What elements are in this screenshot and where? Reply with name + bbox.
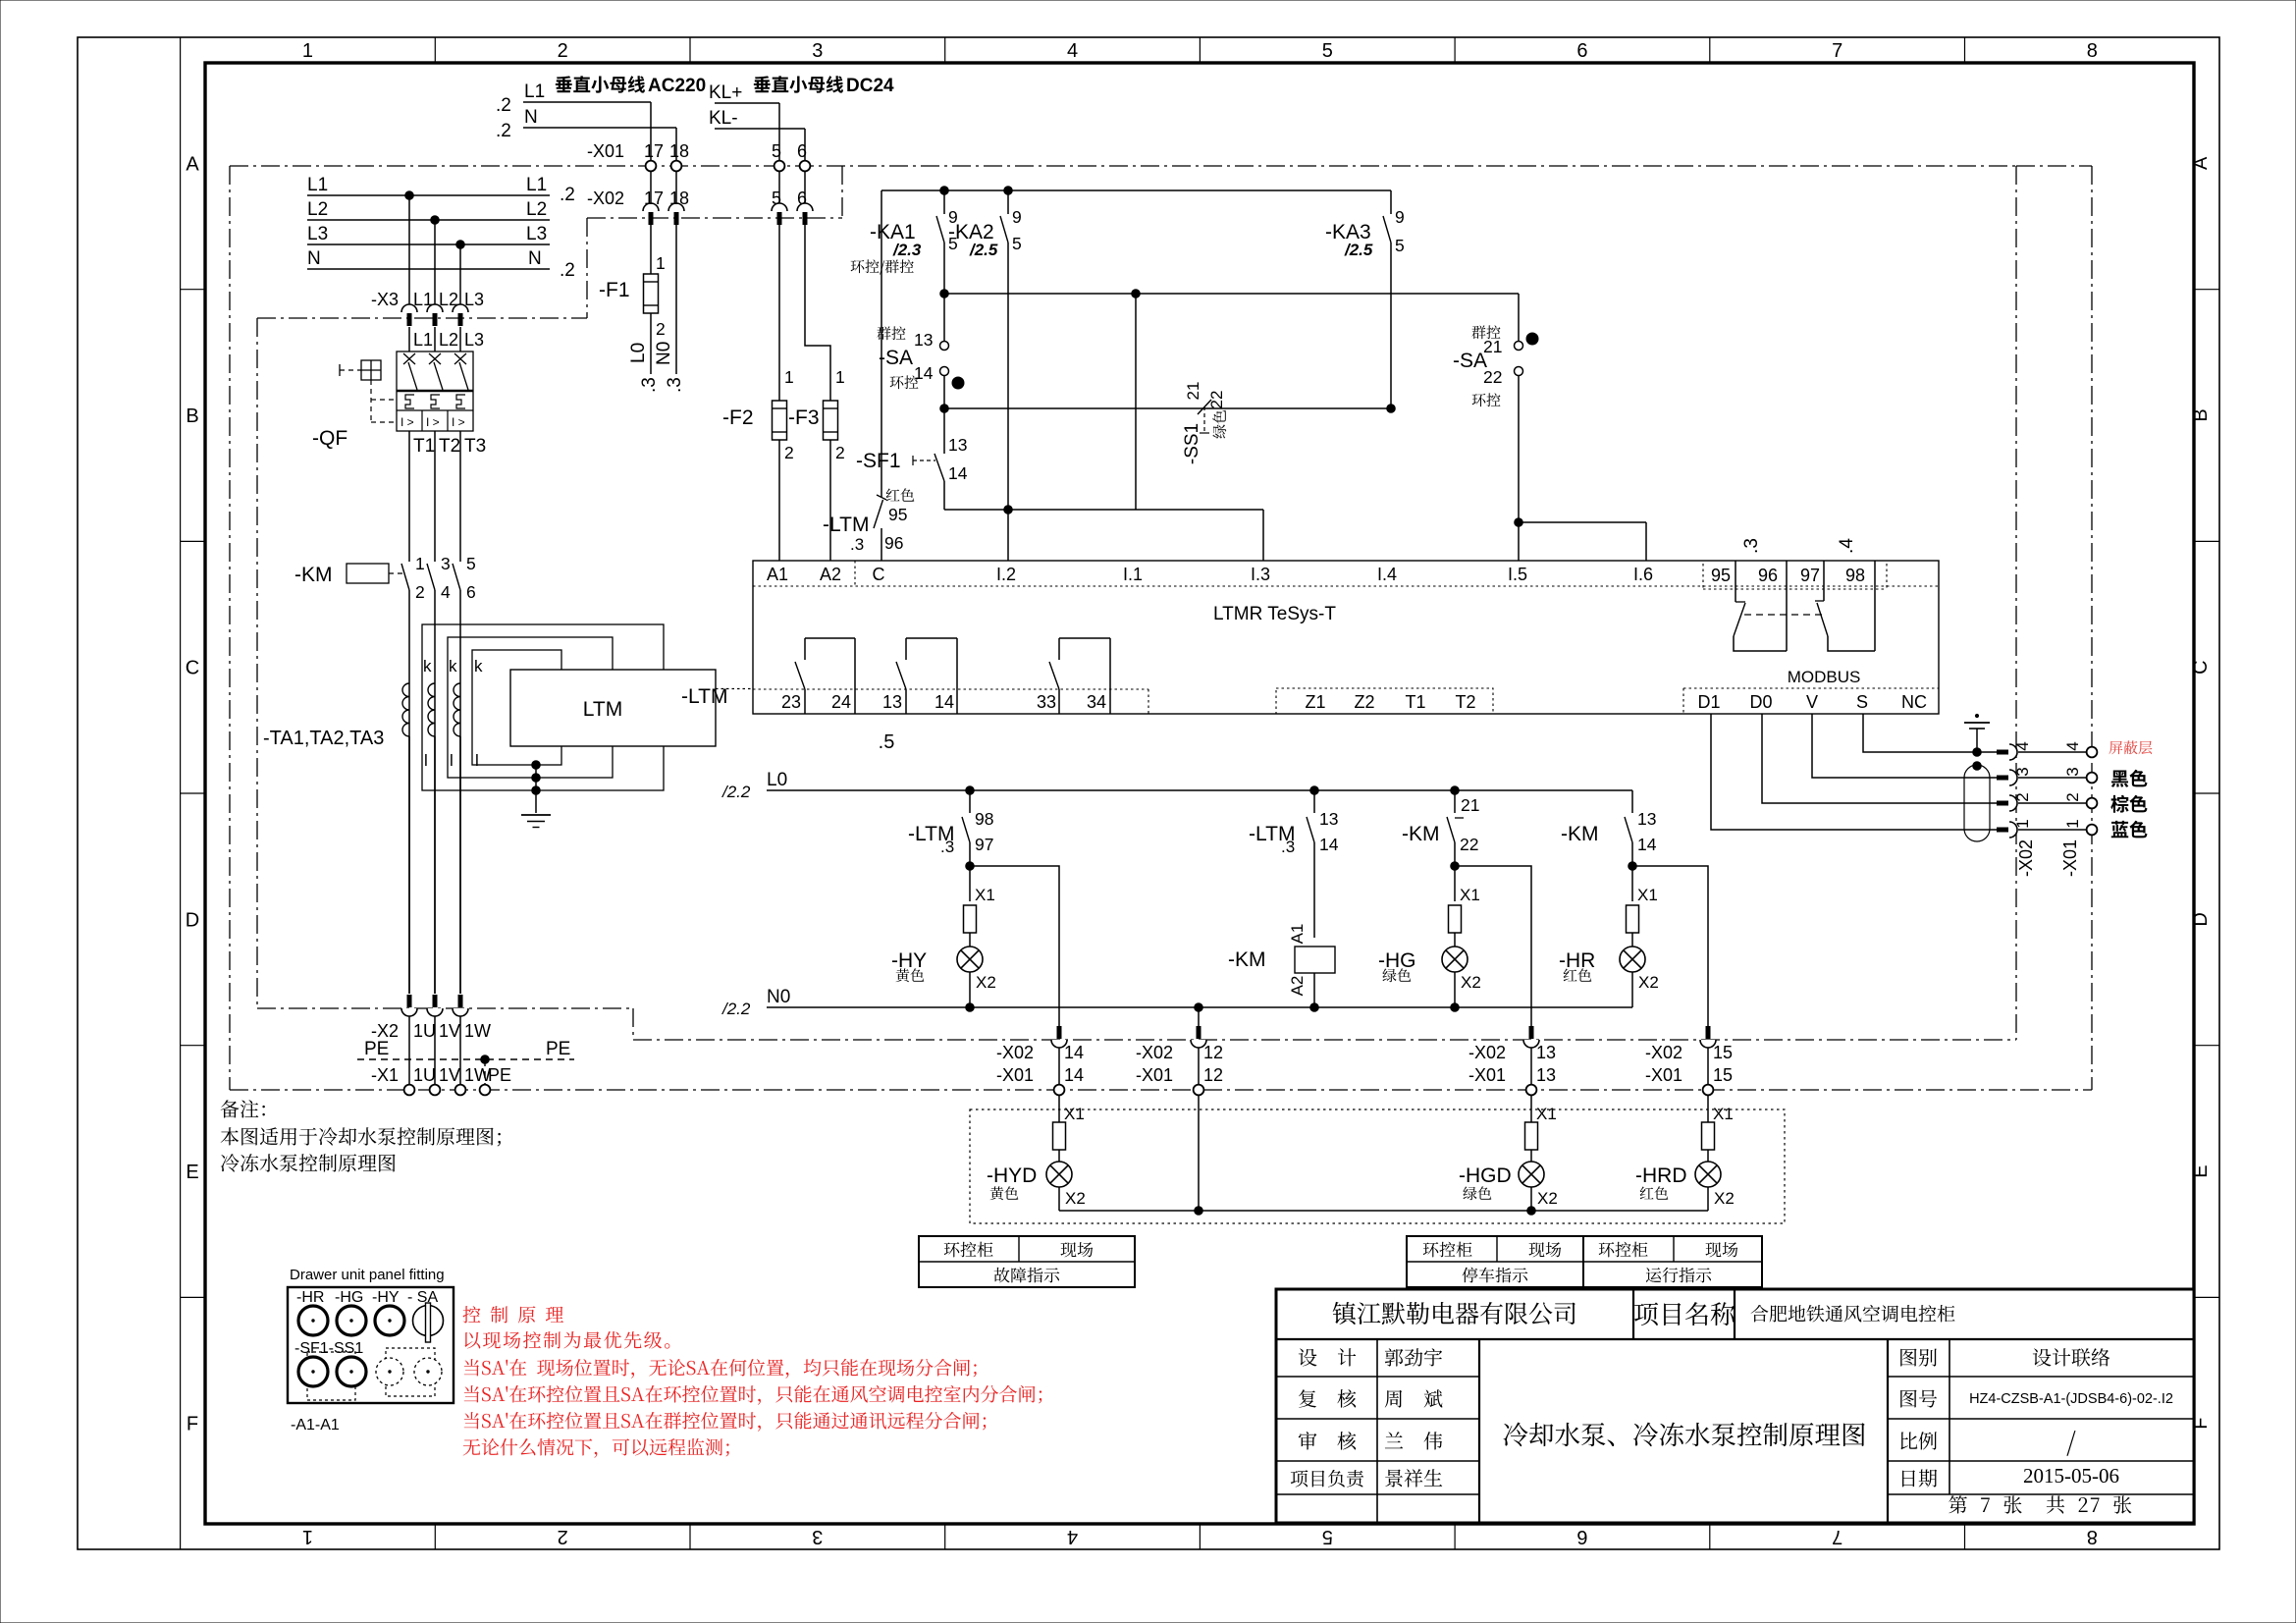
svg-text:2: 2 (656, 319, 666, 339)
label -X2 (371, 1021, 399, 1041)
svg-text:/2.5: /2.5 (1344, 241, 1373, 259)
svg-text:E: E (186, 1162, 198, 1183)
title company name (1333, 1302, 1575, 1325)
wire HR to X02-15 (1632, 866, 1708, 1027)
wire rail I.1 level (940, 290, 1519, 298)
svg-text:4: 4 (2013, 741, 2032, 750)
terminal -X01:18 (669, 141, 689, 171)
contact -LTM 95/96 (823, 495, 907, 561)
node L1 tap (405, 191, 414, 307)
terminal -X2:1W (453, 995, 491, 1041)
svg-text:13: 13 (1319, 809, 1338, 829)
svg-text:L2: L2 (526, 199, 547, 220)
svg-text:22: 22 (1483, 367, 1502, 387)
wire N0 rail (721, 987, 1632, 1018)
label Drawer unit panel fitting (290, 1267, 445, 1283)
red note line4 (464, 1385, 1041, 1405)
svg-text:L3: L3 (526, 224, 547, 244)
svg-text:95: 95 (1711, 566, 1731, 585)
svg-text:-HYD: -HYD (987, 1164, 1037, 1187)
svg-text:1: 1 (302, 1526, 313, 1547)
svg-text:I.1: I.1 (1123, 565, 1143, 584)
svg-text:12: 12 (1203, 1043, 1223, 1062)
svg-text:T3: T3 (464, 436, 486, 457)
svg-text:5: 5 (1395, 236, 1405, 255)
svg-text:7: 7 (1832, 1526, 1842, 1547)
svg-text:98: 98 (975, 809, 993, 829)
svg-text:AC220: AC220 (648, 76, 706, 96)
wire C branch (881, 190, 882, 497)
label .5 (879, 731, 895, 753)
svg-text:14: 14 (934, 692, 954, 712)
svg-text:L1: L1 (413, 330, 433, 350)
svg-text:-A1-A1: -A1-A1 (291, 1417, 340, 1434)
svg-text:-F3: -F3 (788, 406, 820, 429)
terminal -X01:17 (644, 141, 664, 171)
svg-text:5: 5 (1322, 1526, 1333, 1547)
svg-text:I >: I > (400, 415, 414, 429)
svg-text:L1: L1 (524, 81, 545, 102)
label -TA1,TA2,TA3 (263, 728, 384, 749)
svg-text:22: 22 (1460, 835, 1478, 854)
label LTMR TeSys-T (1213, 604, 1336, 624)
wire S to plug 4 (1863, 714, 1999, 752)
svg-text:T1: T1 (1405, 692, 1425, 712)
svg-text:-X2: -X2 (371, 1021, 399, 1041)
svg-text:2: 2 (2013, 792, 2032, 801)
svg-text:-TA1,TA2,TA3: -TA1,TA2,TA3 (263, 728, 384, 749)
svg-text:l: l (424, 751, 428, 770)
svg-text:-SA: -SA (879, 347, 913, 369)
svg-text:-HG: -HG (1378, 949, 1416, 972)
svg-text:1U: 1U (413, 1065, 436, 1085)
wire D0 to plug 2 (1762, 714, 1999, 803)
svg-text:PE: PE (364, 1039, 389, 1059)
svg-text:L2: L2 (439, 330, 458, 350)
wire L1 bus (307, 175, 575, 205)
svg-text:1: 1 (2063, 819, 2082, 828)
svg-text:L3: L3 (307, 224, 328, 244)
svg-text:F: F (187, 1414, 198, 1435)
label -QF (312, 427, 347, 450)
svg-text:.4: .4 (1837, 538, 1857, 554)
terminal -X2:1U (401, 995, 436, 1041)
red note line2 (465, 1331, 670, 1348)
svg-text:8: 8 (2087, 40, 2098, 62)
drawer unit panel drawing (288, 1287, 454, 1403)
wire F2 to A1 (778, 440, 780, 561)
node L2 tap (431, 216, 440, 307)
svg-text:12: 12 (1203, 1065, 1223, 1085)
title drawing name (1504, 1423, 1865, 1447)
label 垂直小母线 AC220 (556, 76, 706, 96)
svg-text:C: C (186, 658, 199, 679)
svg-text:.2: .2 (560, 260, 575, 281)
svg-text:N: N (307, 248, 321, 269)
svg-text:4: 4 (2063, 741, 2082, 750)
svg-text:PE: PE (488, 1065, 511, 1085)
label 黑色 (2111, 770, 2148, 787)
label 屏蔽层 (2109, 740, 2152, 754)
current transformers -TA1,TA2,TA3 coils (402, 657, 483, 770)
terminal -X02:6 (797, 189, 813, 225)
terminal -X02:5 (772, 189, 787, 225)
terminal -X01:12 (1136, 1065, 1223, 1095)
wire SA bottom rail (940, 405, 1396, 413)
svg-text:S: S (1856, 692, 1868, 712)
svg-text:D1: D1 (1697, 692, 1720, 712)
svg-text:3: 3 (812, 40, 823, 62)
label 蓝色 (2111, 821, 2148, 839)
lamp -HGD branch (1459, 1095, 1558, 1211)
svg-text:1V: 1V (439, 1065, 460, 1085)
title block grid (1276, 1289, 2194, 1523)
svg-text:-LTM: -LTM (823, 514, 869, 536)
svg-text:k: k (423, 657, 432, 676)
svg-text:5: 5 (1012, 234, 1022, 253)
title 项目名称 (1634, 1302, 1735, 1325)
pushbutton -SF1 (856, 408, 968, 510)
svg-text:-KM: -KM (1402, 823, 1440, 845)
svg-text:1: 1 (784, 367, 794, 387)
frame row ticks and letters (181, 153, 2219, 1434)
svg-text:33: 33 (1037, 692, 1056, 712)
svg-text:l: l (450, 751, 454, 770)
wire KL- mini-bus (709, 108, 805, 161)
relay contact -KA1 (936, 190, 958, 294)
red note line6 (463, 1438, 729, 1458)
svg-text:I >: I > (452, 415, 465, 429)
wire N mini-bus (496, 107, 676, 161)
svg-text:-F2: -F2 (722, 406, 754, 429)
selector switch -SA right (1453, 294, 1538, 522)
svg-text:-SF1-SS1: -SF1-SS1 (294, 1340, 363, 1357)
CT secondary loop inner (472, 650, 561, 765)
node HY branch (966, 862, 975, 871)
svg-text:N: N (524, 107, 538, 128)
svg-text:13: 13 (948, 435, 967, 455)
terminal -X02:12 (1136, 1026, 1223, 1062)
wire X3 to QF L3 (460, 327, 484, 352)
svg-text:5: 5 (772, 141, 781, 161)
terminal -X2:1V (427, 995, 460, 1041)
svg-text:14: 14 (1064, 1043, 1084, 1062)
CT secondary loop middle (448, 637, 613, 778)
svg-text:B: B (2190, 408, 2212, 421)
svg-text:6: 6 (1576, 40, 1587, 62)
svg-text:2: 2 (2063, 792, 2082, 801)
wire N bus (307, 248, 575, 281)
svg-text:MODBUS: MODBUS (1788, 668, 1861, 686)
terminal -X01:2 (2063, 792, 2097, 808)
wire L2 bus (307, 199, 550, 220)
title row 项目负责 (1291, 1469, 1442, 1487)
table 故障指示 (919, 1236, 1135, 1287)
svg-text:-HR: -HR (296, 1289, 324, 1306)
svg-text:2: 2 (558, 40, 568, 62)
svg-text:L3: L3 (464, 290, 484, 309)
svg-text:L0: L0 (767, 770, 787, 790)
terminal -X02:15 (1645, 1026, 1733, 1062)
terminal -X02:3 plug (1997, 767, 2032, 785)
notes 备注 (221, 1100, 501, 1171)
svg-text:-X02: -X02 (2016, 839, 2036, 877)
wire DC24 control rail (881, 187, 1391, 195)
terminal -X01:14 (996, 1065, 1084, 1095)
svg-text:k: k (449, 657, 457, 676)
svg-text:C: C (2190, 660, 2212, 674)
svg-text:13: 13 (1536, 1043, 1556, 1062)
svg-text:.3: .3 (1741, 538, 1762, 554)
pushbutton -SS1 (1182, 382, 1226, 465)
svg-text:X2: X2 (1638, 973, 1659, 992)
title row 审核 (1299, 1432, 1442, 1450)
LTMR output contacts 23/24 13/14 33/34 (753, 638, 1148, 714)
terminal -X1:PE (480, 1065, 511, 1095)
wire L1 mini-bus (496, 81, 651, 161)
svg-text:PE: PE (546, 1039, 570, 1059)
svg-text:9: 9 (1012, 207, 1022, 227)
svg-text:I.3: I.3 (1251, 565, 1270, 584)
wire X02-6 to F3 (805, 224, 830, 401)
terminal -X1:1W (455, 1065, 491, 1095)
svg-text:8: 8 (2087, 1526, 2098, 1547)
wire X01-X02 links (651, 171, 805, 203)
svg-text:-X01: -X01 (587, 141, 624, 161)
cable shield capsule (1964, 765, 1990, 841)
label .4 ref (1837, 538, 1857, 554)
terminal -X01:15 (1645, 1065, 1733, 1095)
svg-text:E: E (2190, 1164, 2212, 1177)
svg-text:7: 7 (1832, 40, 1842, 62)
wire HG to X02-13 (1455, 866, 1531, 1027)
svg-text:97: 97 (975, 835, 993, 854)
label -KA2 (948, 221, 998, 259)
svg-text:2: 2 (784, 443, 794, 462)
contactor -KM main contacts (401, 554, 476, 602)
relay contact -KA2 (1000, 190, 1022, 510)
wire X02-5 to F2 (778, 224, 780, 401)
wire X02 to X01 col15 (1707, 1048, 1709, 1085)
svg-text:98: 98 (1845, 566, 1865, 585)
svg-text:18: 18 (669, 141, 689, 161)
contact -KM 21/22 (1402, 790, 1479, 854)
svg-text:-LTM: -LTM (681, 685, 727, 708)
wire X02-17 to F1 (650, 224, 652, 274)
contact -LTM 98/97 (908, 790, 993, 866)
title sheet number (1949, 1495, 2131, 1513)
svg-text:Z1: Z1 (1305, 692, 1325, 712)
svg-text:6: 6 (797, 189, 807, 208)
svg-text:5: 5 (772, 189, 781, 208)
wire V to plug 3 (1812, 714, 1999, 778)
title 图号 (1900, 1389, 2173, 1407)
svg-text:k: k (474, 657, 483, 676)
svg-text:-QF: -QF (312, 427, 347, 450)
svg-text:-X02: -X02 (1468, 1043, 1506, 1062)
node HR branch (1629, 842, 1637, 870)
label -X02 top (587, 189, 624, 208)
wire field lamp common (1059, 1207, 1708, 1216)
svg-text:97: 97 (1800, 566, 1820, 585)
svg-text:HZ4-CZSB-A1-(JDSB4-6)-02-.I2: HZ4-CZSB-A1-(JDSB4-6)-02-.I2 (1969, 1391, 2173, 1407)
svg-text:I.4: I.4 (1377, 565, 1397, 584)
svg-text:T2: T2 (1455, 692, 1475, 712)
svg-text:3: 3 (2063, 767, 2082, 776)
svg-text:17: 17 (644, 189, 664, 208)
svg-text:N0: N0 (654, 342, 674, 365)
svg-text:-SS1: -SS1 (1182, 423, 1202, 464)
label -X02 rotated (2016, 839, 2036, 877)
PE dashed bus (357, 1039, 574, 1085)
svg-text:-X01: -X01 (1136, 1065, 1173, 1085)
svg-text:X2: X2 (976, 973, 996, 992)
svg-text:T1: T1 (413, 436, 435, 457)
svg-text:/2.3: /2.3 (892, 241, 922, 259)
frame column ticks and numbers (302, 37, 2098, 1549)
node L3 tap (456, 241, 465, 307)
label 垂直小母线 DC24 (754, 76, 894, 96)
svg-text:2015-05-06: 2015-05-06 (2023, 1464, 2119, 1488)
svg-text:V: V (1806, 692, 1818, 712)
label -LTM at LTM box (681, 685, 727, 708)
svg-text:1: 1 (415, 554, 425, 573)
node HG branch (1451, 842, 1460, 870)
svg-text:2: 2 (415, 582, 425, 602)
label -A1-A1 (291, 1417, 340, 1434)
svg-text:L3: L3 (464, 330, 484, 350)
wire L3 bus (307, 224, 550, 244)
svg-text:23: 23 (781, 692, 801, 712)
svg-text:1: 1 (656, 253, 666, 273)
LTM module box (510, 670, 716, 746)
svg-text:KL+: KL+ (709, 82, 742, 103)
svg-text:1V: 1V (439, 1021, 460, 1041)
svg-text:6: 6 (1576, 1526, 1587, 1547)
svg-text:L1: L1 (526, 175, 547, 195)
svg-text:.3: .3 (665, 377, 685, 393)
svg-text:-SF1: -SF1 (856, 450, 901, 472)
svg-text:/2.2: /2.2 (721, 1000, 751, 1018)
fuse -F1 (599, 253, 666, 339)
svg-text:D: D (186, 909, 199, 931)
svg-text:1: 1 (835, 367, 845, 387)
terminal -X02:2 plug (1997, 792, 2032, 811)
title 图别 (1900, 1348, 2109, 1366)
LTMR fault relay contacts 95/96 97/98 (1703, 561, 1887, 651)
svg-text:N: N (528, 248, 542, 269)
wire X3 to QF L2 (435, 327, 458, 352)
svg-text:-HRD: -HRD (1635, 1164, 1687, 1187)
svg-text:14: 14 (914, 363, 934, 383)
title 比例 (1900, 1431, 2075, 1456)
drawing frame inner border (205, 63, 2194, 1524)
svg-text:-KM: -KM (1561, 823, 1599, 845)
svg-text:-HGD: -HGD (1459, 1164, 1512, 1187)
terminal -X01:6 (797, 141, 810, 171)
red note line1 (463, 1306, 563, 1323)
lamp -HG branch (1378, 866, 1481, 1007)
svg-text:3: 3 (812, 1526, 823, 1547)
svg-text:LTMR TeSys-T: LTMR TeSys-T (1213, 604, 1336, 624)
red note line5 (464, 1412, 986, 1432)
dotted link LTM to LTMR (716, 688, 753, 690)
label -X01 top (587, 141, 624, 161)
LTMR MODBUS terminals D1 D0 V S NC (1683, 688, 1939, 714)
svg-text:1U: 1U (413, 1021, 436, 1041)
shield ground (1964, 714, 1990, 770)
svg-text:4: 4 (1067, 40, 1078, 62)
svg-text:D0: D0 (1749, 692, 1772, 712)
terminal -X3:L3 (453, 290, 484, 326)
svg-text:X1: X1 (975, 886, 995, 904)
svg-text:24: 24 (831, 692, 851, 712)
svg-text:14: 14 (948, 463, 968, 483)
svg-text:1W: 1W (464, 1021, 491, 1041)
svg-text:N0: N0 (767, 987, 790, 1007)
svg-text:I >: I > (426, 415, 440, 429)
CT secondary loop outer (422, 624, 664, 790)
svg-text:-X02: -X02 (1136, 1043, 1173, 1062)
svg-text:1: 1 (302, 40, 313, 62)
label .3 ref (1741, 538, 1762, 554)
svg-text:.3: .3 (1281, 838, 1295, 856)
terminal -X02:13 (1468, 1026, 1556, 1062)
svg-text:-X01: -X01 (996, 1065, 1034, 1085)
LTMR TeSys-T block (753, 561, 1939, 714)
svg-text:14: 14 (1319, 835, 1339, 854)
svg-text:34: 34 (1087, 692, 1106, 712)
label MODBUS (1788, 668, 1861, 686)
svg-text:9: 9 (1395, 207, 1405, 227)
svg-text:-HY: -HY (891, 949, 927, 972)
svg-text:-KM: -KM (294, 564, 333, 586)
wire I.5/I.6 joint (1515, 518, 1646, 561)
wire X02 to X01 col13 (1530, 1048, 1532, 1085)
lamp -HYD branch (987, 1095, 1086, 1211)
svg-text:/2.2: /2.2 (721, 783, 751, 801)
svg-text:Z2: Z2 (1354, 692, 1374, 712)
label -KA3 (1325, 221, 1373, 259)
table 运行指示 (1583, 1236, 1762, 1287)
svg-text:.5: .5 (879, 731, 895, 753)
terminal -X3:L2 (427, 290, 458, 326)
svg-text:A: A (2190, 156, 2212, 170)
svg-text:.2: .2 (496, 121, 511, 141)
svg-text:14: 14 (1064, 1065, 1084, 1085)
svg-text:-X01: -X01 (1468, 1065, 1506, 1085)
svg-text:L1: L1 (307, 175, 328, 195)
svg-text:C: C (873, 565, 885, 584)
wire X01-12 down (1198, 1095, 1200, 1211)
wire X2 to X1 links (409, 1016, 460, 1085)
svg-text:X1: X1 (1064, 1105, 1085, 1123)
terminal -X02:1 plug (1997, 819, 2032, 838)
svg-text:A1: A1 (767, 565, 788, 584)
label -X3 (371, 290, 399, 309)
terminal -X3:L1 (401, 290, 433, 326)
svg-text:4: 4 (1067, 1526, 1078, 1547)
wire N0 to X02-12 (1198, 1007, 1200, 1027)
title row 设计 (1299, 1348, 1442, 1366)
svg-text:2: 2 (558, 1526, 568, 1547)
terminal -X02:18 (668, 189, 689, 225)
svg-text:A2: A2 (820, 565, 841, 584)
node CT common joints (532, 761, 541, 813)
wire KM to CT (409, 590, 460, 994)
terminal -X01:13 (1468, 1065, 1556, 1095)
label 棕色 (2110, 795, 2147, 813)
